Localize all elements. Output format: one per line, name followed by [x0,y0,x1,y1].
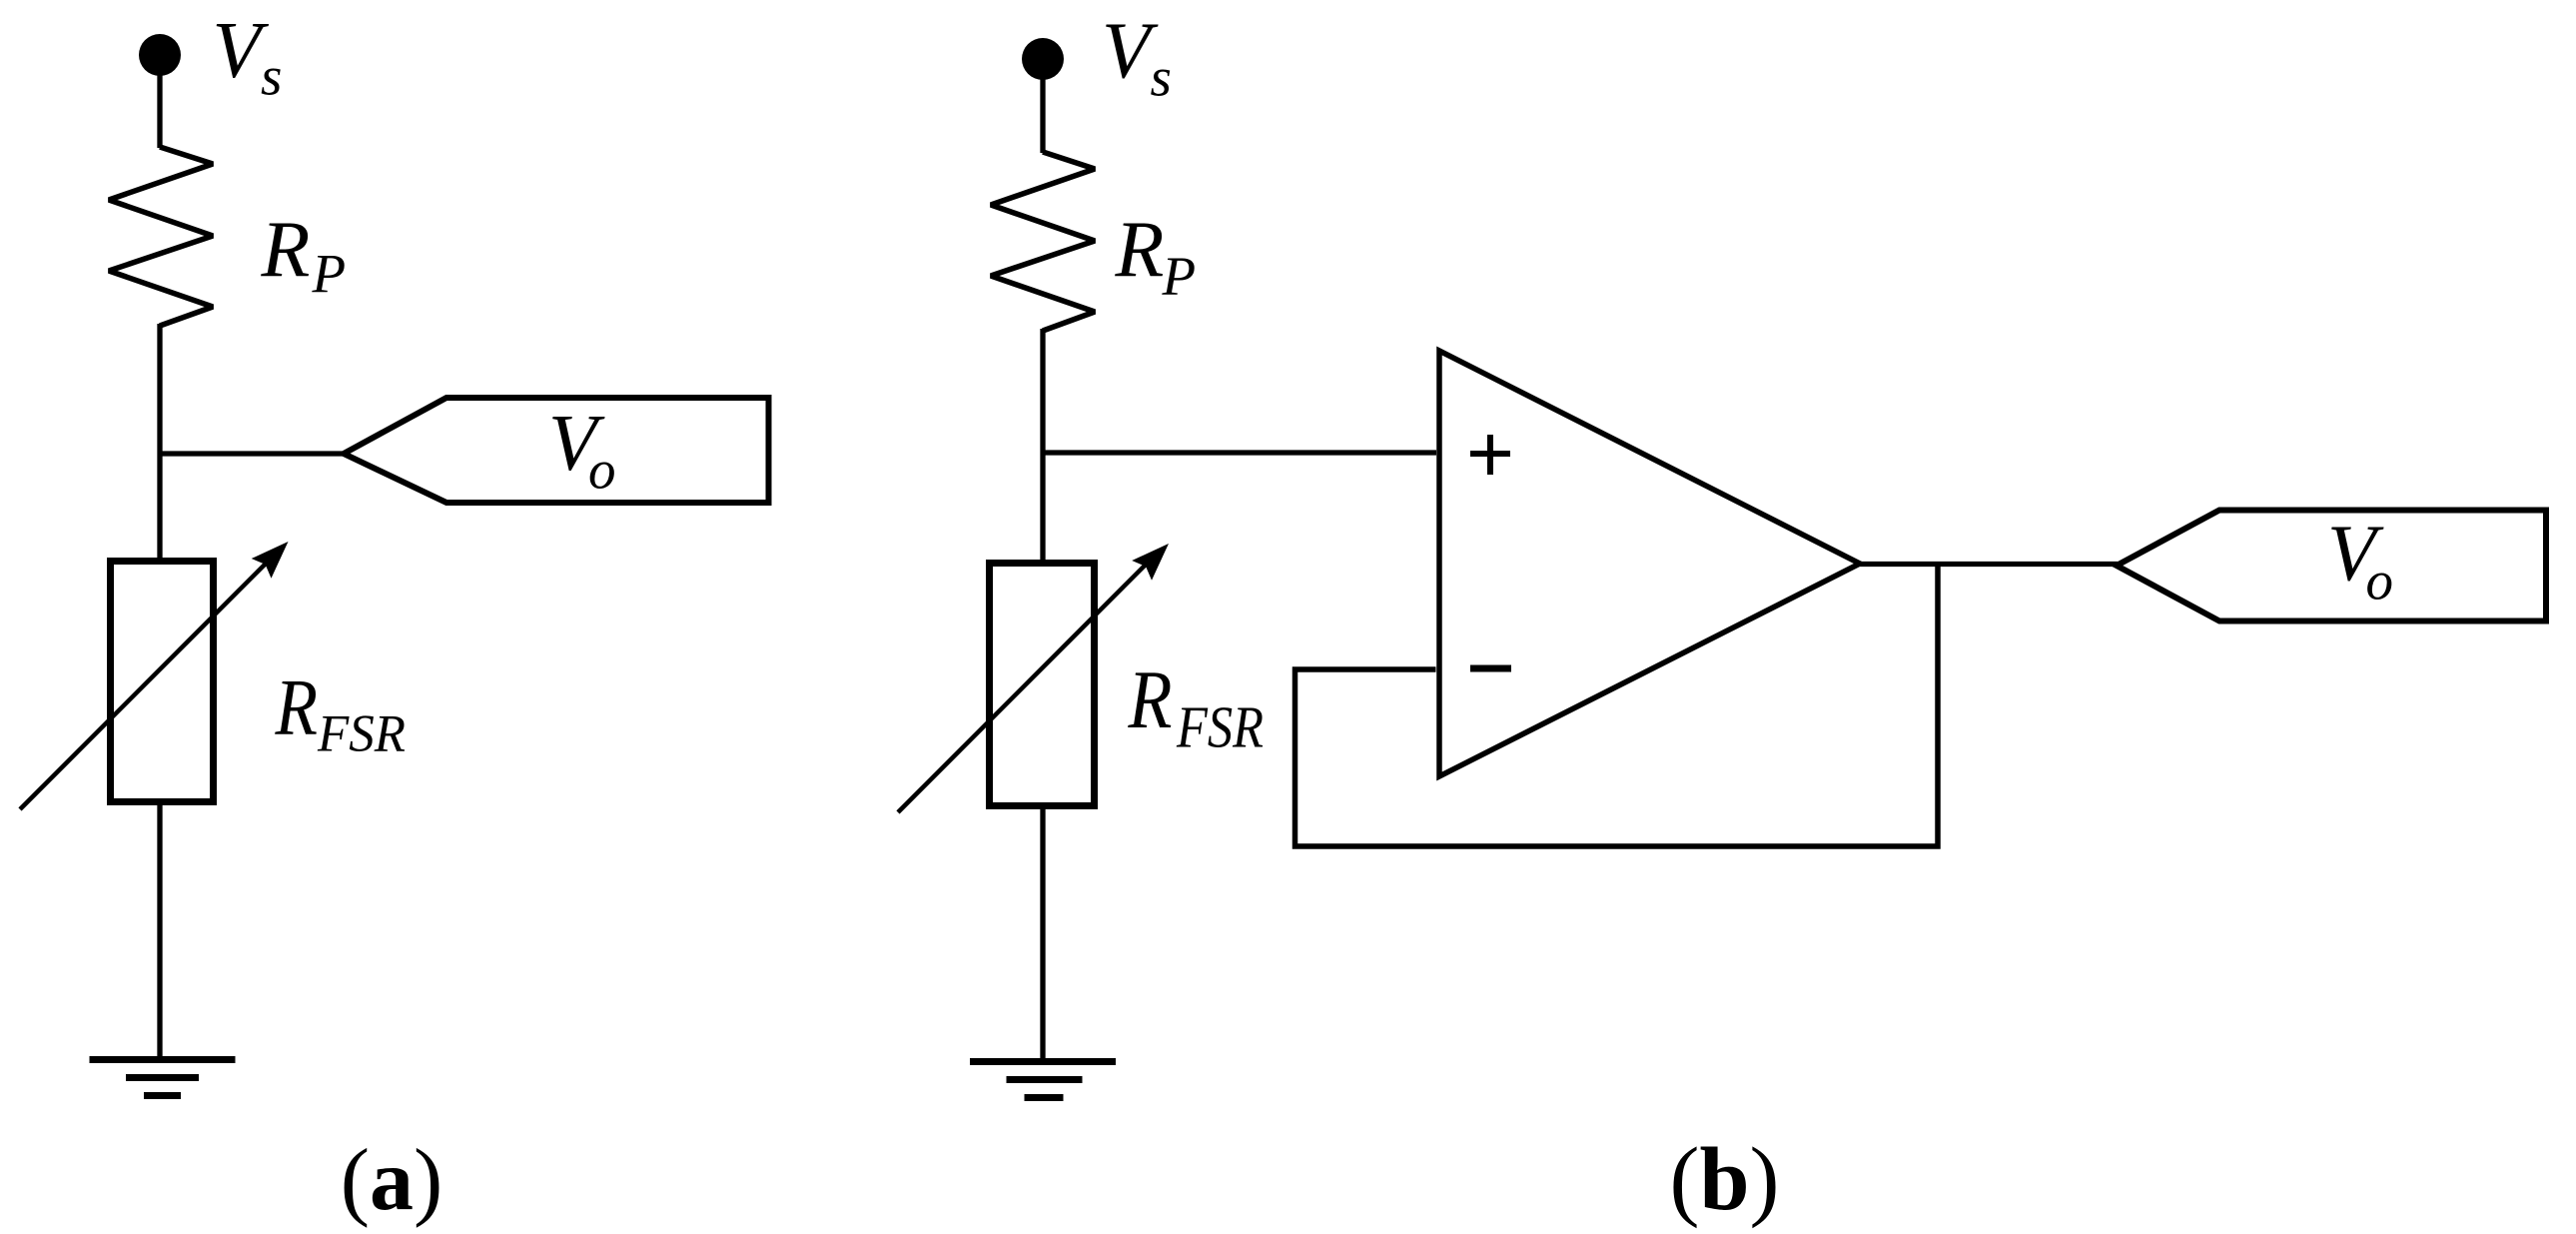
svg-text:R: R [261,206,311,294]
svg-text:o: o [588,440,616,501]
svg-text:P: P [1162,246,1197,307]
svg-text:P: P [312,243,347,304]
svg-text:s: s [261,46,282,107]
svg-text:R: R [275,664,318,752]
svg-text:s: s [1151,47,1172,108]
svg-text:o: o [2366,551,2394,612]
svg-text:R: R [1128,653,1173,746]
svg-text:FSR: FSR [1176,694,1264,760]
svg-text:(b): (b) [1669,1130,1779,1229]
svg-text:R: R [1115,206,1165,294]
svg-text:(a): (a) [341,1132,443,1229]
svg-text:FSR: FSR [317,705,406,763]
